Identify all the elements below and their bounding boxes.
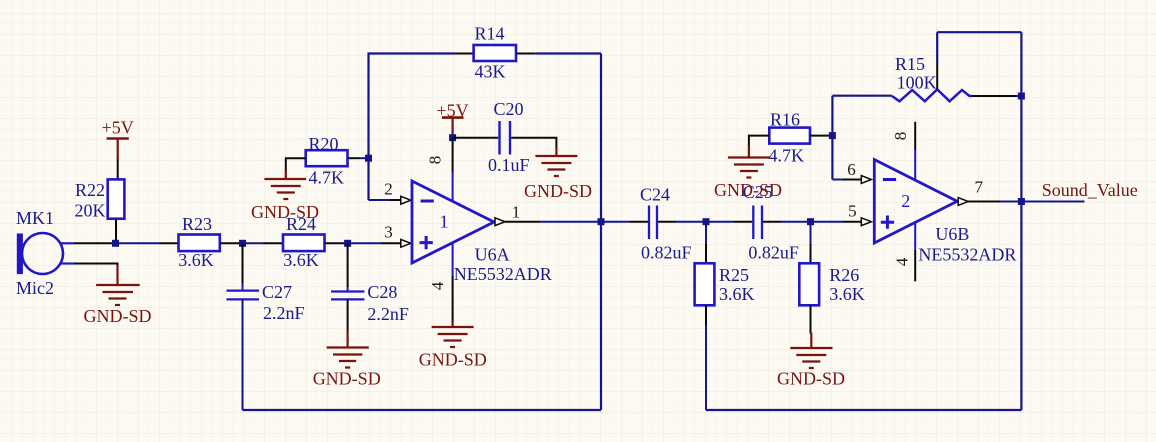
wire R20 to feedback vertical xyxy=(360,157,369,159)
wire mic top to R22 junction xyxy=(74,242,112,244)
wire R26 bottom xyxy=(810,305,812,333)
wire mic line to R23 xyxy=(112,242,160,244)
svg-text:2.2nF: 2.2nF xyxy=(367,304,409,324)
svg-text:Mic2: Mic2 xyxy=(16,278,54,298)
pin R24 left xyxy=(263,242,283,244)
resistor R22 xyxy=(108,179,125,218)
capacitor C28 stem top xyxy=(347,243,349,287)
wire R15 apex to top bracket xyxy=(936,62,938,89)
mic pin stub bottom xyxy=(60,262,74,264)
node junction output/right vertical xyxy=(598,218,605,225)
node junction R20/feedback xyxy=(365,155,372,162)
wire junction to C25 xyxy=(706,221,734,223)
capacitor C20 plates xyxy=(498,121,500,155)
wire C25 to R26 junction xyxy=(763,221,781,223)
pin 4 wire U6A xyxy=(452,243,454,277)
U6B minus symbol xyxy=(883,178,896,181)
wire bottom rail right xyxy=(706,409,1021,411)
node junction R26 tap xyxy=(807,218,814,225)
svg-text:R16: R16 xyxy=(770,110,800,130)
wire mic bottom to ground corner xyxy=(74,264,118,268)
wire feedback vertical (pin6 branch) xyxy=(831,96,833,180)
wire pin2 horizontal xyxy=(369,199,391,201)
svg-text:R25: R25 xyxy=(719,265,749,285)
resistor R26 xyxy=(810,222,812,244)
node junction output/feedback xyxy=(1018,198,1025,205)
svg-text:0.82uF: 0.82uF xyxy=(641,243,692,263)
svg-text:C28: C28 xyxy=(367,282,397,302)
capacitor C28 plates xyxy=(331,290,364,292)
wire C28 bottom xyxy=(347,299,349,331)
wire pin6 horizontal xyxy=(832,179,843,181)
capacitor C25 plates xyxy=(752,206,754,240)
svg-text:GND-SD: GND-SD xyxy=(714,180,782,200)
svg-text:R14: R14 xyxy=(475,24,505,44)
svg-text:0.82uF: 0.82uF xyxy=(748,243,799,263)
svg-text:NE5532ADR: NE5532ADR xyxy=(454,264,552,284)
node junction R22/mic line xyxy=(112,240,119,247)
pin R20 left xyxy=(286,158,306,171)
resistor R15 zigzag xyxy=(892,89,972,101)
wire junction to C24 xyxy=(601,221,630,223)
wire junction to U6B pin5 xyxy=(811,221,844,223)
wire right feedback vertical xyxy=(1020,32,1022,410)
svg-text:GND-SD: GND-SD xyxy=(419,350,487,370)
pin 8 wire U6B xyxy=(914,122,916,150)
wire +5V to R22 xyxy=(117,159,119,179)
wire R16 to U6B feedback vertical xyxy=(829,135,832,137)
capacitor C27 stem top xyxy=(242,243,244,283)
node junction C27 tap xyxy=(239,240,246,247)
svg-text:2: 2 xyxy=(384,180,393,199)
pin 8 wire U6A xyxy=(452,138,454,172)
svg-text:3.6K: 3.6K xyxy=(829,284,865,304)
svg-text:100K: 100K xyxy=(897,73,937,93)
resistor R25 xyxy=(705,222,707,244)
wire C24 to R25 junction xyxy=(658,221,676,223)
pin R14 left xyxy=(455,53,474,55)
svg-text:U6A: U6A xyxy=(475,245,510,265)
svg-text:Sound_Value: Sound_Value xyxy=(1042,180,1138,200)
svg-text:R22: R22 xyxy=(75,180,105,200)
U6A minus symbol xyxy=(421,200,434,203)
wire R15 right to junction xyxy=(972,95,1016,97)
node junction R15/feedback vertical xyxy=(1018,93,1025,100)
U6B plus symbol xyxy=(881,216,894,229)
svg-text:GND-SD: GND-SD xyxy=(83,306,151,326)
pin R23 right xyxy=(220,242,243,244)
microphone MK1 circle xyxy=(22,233,63,274)
pin R16 right xyxy=(810,135,829,137)
ground GND-SD (C28) xyxy=(327,330,369,368)
wire R25 bottom to rail xyxy=(705,305,707,325)
svg-text:3: 3 xyxy=(384,223,393,242)
ground GND-SD (R26) xyxy=(790,333,832,368)
wire top bracket xyxy=(937,31,1021,33)
pin 6 arrow xyxy=(861,176,871,184)
svg-text:R23: R23 xyxy=(182,214,212,234)
ground GND-SD (C20) xyxy=(535,147,577,176)
wire R14 to right vertical xyxy=(536,52,601,54)
op-amp U6A triangle xyxy=(412,181,494,263)
pin R23 left xyxy=(160,242,179,244)
pin 1 output arrow U6A xyxy=(495,218,505,226)
node junction R16/feedback xyxy=(829,132,836,139)
svg-text:C24: C24 xyxy=(640,185,670,205)
svg-text:4: 4 xyxy=(892,257,911,266)
wire junction to U6A pin3 xyxy=(348,242,381,244)
svg-text:4: 4 xyxy=(428,281,447,290)
svg-text:NE5532ADR: NE5532ADR xyxy=(918,245,1016,265)
svg-text:U6B: U6B xyxy=(935,224,969,244)
svg-text:3.6K: 3.6K xyxy=(719,284,755,304)
svg-text:C20: C20 xyxy=(494,99,524,119)
svg-text:MK1: MK1 xyxy=(16,208,54,228)
svg-text:C27: C27 xyxy=(262,282,292,302)
wire U6A output xyxy=(505,221,540,223)
node junction C28 tap xyxy=(344,240,351,247)
wire U6B output xyxy=(968,201,1000,203)
resistor R14 xyxy=(474,45,516,61)
svg-text:GND-SD: GND-SD xyxy=(251,202,319,222)
wire feedback left vertical xyxy=(369,54,455,201)
svg-text:5: 5 xyxy=(848,202,857,221)
pin 2 arrow xyxy=(401,196,411,204)
svg-text:4.7K: 4.7K xyxy=(769,146,805,166)
ground GND-SD (R16) xyxy=(728,145,770,178)
capacitor C24 plates xyxy=(648,206,650,240)
wire right vertical (output to top/bottom) xyxy=(600,54,602,411)
svg-text:4.7K: 4.7K xyxy=(309,168,345,188)
mic pin stub top xyxy=(60,242,74,244)
svg-text:2.2nF: 2.2nF xyxy=(263,303,305,323)
pin R24 right xyxy=(325,242,348,244)
op-amp U6B triangle xyxy=(874,160,957,244)
svg-text:GND-SD: GND-SD xyxy=(524,181,592,201)
pin R16 left xyxy=(749,136,769,146)
svg-text:7: 7 xyxy=(975,178,984,197)
wire output to net label xyxy=(1021,201,1084,203)
ground GND-SD (R20) xyxy=(264,170,306,199)
pin 3 arrow xyxy=(401,239,411,247)
svg-text:20K: 20K xyxy=(75,201,106,221)
svg-text:3.6K: 3.6K xyxy=(283,250,319,270)
pin 4 wire U6B xyxy=(914,223,916,250)
svg-text:GND-SD: GND-SD xyxy=(313,369,381,389)
pin R14 right xyxy=(516,53,536,55)
wire junction to R24 xyxy=(243,242,264,244)
node junction R25 tap xyxy=(703,218,710,225)
svg-text:2: 2 xyxy=(901,191,910,211)
svg-text:6: 6 xyxy=(847,160,856,179)
wire junction to C20 xyxy=(453,137,499,139)
svg-text:3.6K: 3.6K xyxy=(178,250,214,270)
pin 5 arrow xyxy=(861,218,871,226)
microphone MK1 bar xyxy=(17,234,23,275)
pin 3 wire U6A xyxy=(381,242,401,244)
ground GND-SD (U6A pin 4) xyxy=(432,321,474,347)
svg-text:+5V: +5V xyxy=(102,118,134,138)
resistor R23 xyxy=(179,235,220,252)
svg-text:R15: R15 xyxy=(895,54,925,74)
svg-text:43K: 43K xyxy=(475,62,506,82)
svg-text:8: 8 xyxy=(426,156,445,165)
resistor R20 xyxy=(306,150,348,166)
wire feedback top to R15 xyxy=(832,95,892,97)
svg-text:1: 1 xyxy=(440,212,449,232)
svg-text:GND-SD: GND-SD xyxy=(777,368,845,388)
svg-text:R26: R26 xyxy=(829,265,859,285)
capacitor C27 plates xyxy=(227,289,260,291)
svg-text:1: 1 xyxy=(512,203,521,222)
svg-text:8: 8 xyxy=(891,132,910,141)
U6A plus symbol xyxy=(420,236,433,249)
wire C20 to ground corner xyxy=(511,138,556,148)
pin R22 bottom xyxy=(115,219,117,244)
pin R20 right xyxy=(348,157,361,159)
node junction +5V/C20/pin8 xyxy=(449,134,456,141)
resistor R24 xyxy=(283,235,325,252)
pin 7 output arrow U6B xyxy=(958,198,968,206)
svg-text:R20: R20 xyxy=(309,134,339,154)
svg-text:0.1uF: 0.1uF xyxy=(488,155,530,175)
ground GND-SD (mic) xyxy=(96,266,140,305)
resistor R16 xyxy=(769,128,810,144)
wire C27 bottom to rail xyxy=(242,299,244,410)
wire bottom rail left xyxy=(243,409,602,411)
